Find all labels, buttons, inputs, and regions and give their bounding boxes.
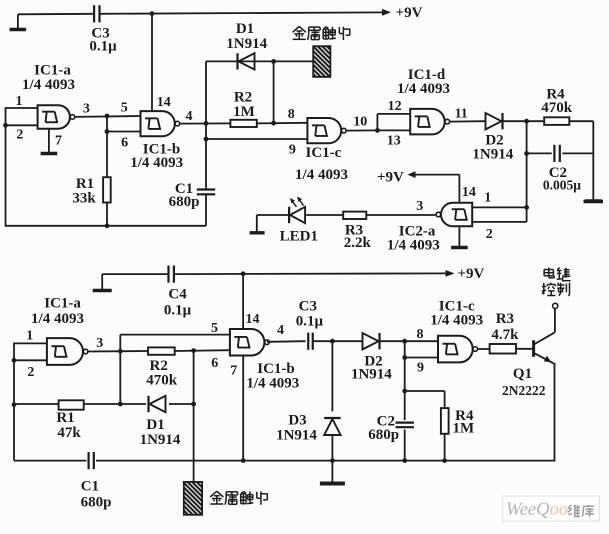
wire: vertical node down to C2 <box>404 341 406 420</box>
svg-text:1: 1 <box>26 328 33 343</box>
wire: pin4 to R2 <box>180 122 231 124</box>
svg-text:D1: D1 <box>146 417 164 433</box>
gate IC1-c (top) <box>307 118 346 143</box>
resistor R4 1M (bottom, vertical) <box>441 408 449 434</box>
wire pin 2 IC2-a <box>472 221 526 223</box>
svg-text:IC1-a: IC1-a <box>44 295 81 311</box>
gate IC1-b (bottom) <box>230 329 269 356</box>
wire drop to ground <box>256 215 258 232</box>
wire pin 12 <box>377 113 410 115</box>
wire: pin 9 of IC1-c <box>206 138 307 140</box>
wire: right vertical to ground <box>592 121 594 201</box>
wire pin 13 <box>377 129 410 131</box>
gate IC1-c (bottom) <box>438 336 478 363</box>
svg-text:1: 1 <box>484 190 491 205</box>
junction pin9 <box>402 355 407 360</box>
wire: emitter down to bottom rail <box>554 364 556 462</box>
svg-text:1M: 1M <box>452 421 474 437</box>
diode D2 1N914 (top) <box>486 113 503 129</box>
wire: output 10 <box>346 129 378 131</box>
ground below IC2-a <box>451 226 468 247</box>
svg-text:1N914: 1N914 <box>226 36 267 52</box>
junction C2 tap <box>524 151 529 156</box>
junction C2/bottom <box>402 458 407 463</box>
junction vertical/D1 wire <box>118 402 123 407</box>
junction pin2/feedback <box>3 123 8 128</box>
capacitor C4 0.1u <box>169 266 174 283</box>
svg-text:+9V: +9V <box>457 266 484 282</box>
wire: pin 5 bottom <box>120 334 230 336</box>
wire pin2 IC1-a <box>6 124 38 126</box>
metal contact pad (top) 金属触片 <box>313 46 330 77</box>
capacitor C2 0.005u (top) <box>554 145 559 162</box>
junction pin8/D1 drop <box>271 121 276 126</box>
ground (bottom rail left) <box>93 274 112 290</box>
svg-text:13: 13 <box>387 134 401 149</box>
junction pin6/metal-contact drop <box>191 348 196 353</box>
svg-text:8: 8 <box>288 107 295 122</box>
svg-text:7: 7 <box>55 134 62 149</box>
svg-text:1/4 4093: 1/4 4093 <box>295 167 348 183</box>
junction pin9 node <box>204 137 209 142</box>
resistor R2 470k (bottom) <box>148 347 175 354</box>
wire: to R1 bottom <box>14 403 59 405</box>
svg-text:C3: C3 <box>299 298 317 314</box>
svg-text:11: 11 <box>455 106 468 121</box>
junction D3 tap <box>330 339 335 344</box>
wire: pin 7 drop <box>242 356 244 461</box>
svg-text:8: 8 <box>417 327 424 342</box>
wire: pin14 drop IC1-b bottom <box>242 274 244 329</box>
junction: rail to IC1-b pin14 <box>150 11 155 16</box>
resistor R3 2.2k (top) <box>343 212 366 219</box>
wire: 12-13 tie vertical <box>376 114 378 130</box>
capacitor C3 0.1u (bottom) <box>308 333 313 350</box>
junction R1/bottom <box>105 223 110 228</box>
resistor R2 1M (top) <box>230 120 256 127</box>
svg-text:LED1: LED1 <box>280 229 318 245</box>
svg-text:1N914: 1N914 <box>140 432 181 448</box>
wire: R3 to Q1 base <box>516 348 533 350</box>
svg-text:1/4 4093: 1/4 4093 <box>130 155 183 171</box>
wire: output 11 to D2 <box>450 120 485 122</box>
wire: output4 to C3 bottom <box>267 340 306 343</box>
junction pin4 node <box>204 121 209 126</box>
+9V arrow (top rail) <box>382 9 391 16</box>
svg-text:1M: 1M <box>233 104 255 120</box>
svg-text:3: 3 <box>416 199 423 214</box>
resistor R1 47k (bottom) <box>59 400 84 409</box>
svg-text:3: 3 <box>83 101 90 116</box>
svg-text:1/4 4093: 1/4 4093 <box>246 376 299 392</box>
svg-text:14: 14 <box>246 312 260 327</box>
wire: R4 to right vertical <box>569 120 593 122</box>
label 电键 <box>544 268 571 281</box>
svg-text:3: 3 <box>96 336 103 351</box>
wire: R1 to D1 <box>84 403 146 405</box>
svg-text:IC1-c: IC1-c <box>305 145 341 161</box>
svg-text:1/4 4093: 1/4 4093 <box>22 77 75 93</box>
svg-text:2: 2 <box>16 127 23 142</box>
wire: output to R3 bottom <box>478 348 490 350</box>
svg-text:2: 2 <box>486 227 493 242</box>
capacitor C2 680p (bottom) <box>396 423 414 428</box>
svg-text:680p: 680p <box>81 494 112 510</box>
svg-text:9: 9 <box>417 360 424 375</box>
junction R4/bottom <box>442 458 447 463</box>
resistor R4 470k (top) <box>544 117 569 125</box>
wire: D1 to vertical <box>169 403 194 405</box>
svg-text:47k: 47k <box>57 425 81 441</box>
ground (top-left) <box>10 14 27 29</box>
junction pins 12/13 <box>375 128 380 133</box>
svg-text:4.7k: 4.7k <box>491 327 519 343</box>
wire: R3 to LED1 <box>306 214 343 216</box>
svg-text:WeeQoo: WeeQoo <box>506 500 568 520</box>
top +9V rail wire <box>18 13 94 16</box>
svg-text:4: 4 <box>277 323 284 338</box>
svg-text:Q1: Q1 <box>513 366 532 382</box>
wire: down to metal contact (crosses bottom wire) <box>193 351 195 482</box>
svg-text:10: 10 <box>353 115 367 130</box>
svg-text:680p: 680p <box>368 427 399 443</box>
wire: pin 14 drop <box>151 14 153 112</box>
LED1 arrows <box>290 197 304 208</box>
wire pin2 IC1-a bottom <box>14 359 47 361</box>
svg-text:C1: C1 <box>81 479 99 495</box>
svg-text:2N2222: 2N2222 <box>502 383 546 398</box>
junction D2/R4/C2 node <box>524 119 529 124</box>
junction D1/vertical <box>191 402 196 407</box>
gate IC1-a (bottom) <box>47 338 88 365</box>
junction pin8 node <box>402 339 407 344</box>
svg-text:7: 7 <box>230 364 237 379</box>
wire: pin 9 bottom <box>405 357 438 359</box>
wire: bottom return rail (left of C1) <box>14 460 87 462</box>
capacitor C1 680p (top) <box>197 190 215 195</box>
svg-text:+9V: +9V <box>377 169 404 185</box>
svg-text:R3: R3 <box>496 311 514 327</box>
transistor Q1 2N2222 <box>534 332 556 364</box>
svg-text:0.1μ: 0.1μ <box>164 302 192 318</box>
watermark WeeQoo维库 <box>503 496 600 521</box>
svg-text:6: 6 <box>121 135 128 150</box>
junction D3/bottom <box>330 458 335 463</box>
resistor R1 33k (top, vertical) <box>103 177 111 202</box>
junction pin6 <box>105 129 110 134</box>
svg-text:1N914: 1N914 <box>472 147 513 163</box>
+9V arrow (bottom rail) <box>446 270 455 277</box>
svg-text:14: 14 <box>462 185 476 200</box>
label 金属触片 (bottom) <box>210 491 268 505</box>
svg-text:1/4 4093: 1/4 4093 <box>430 313 483 329</box>
svg-text:9: 9 <box>289 142 296 157</box>
wire: down to R1 <box>106 116 108 177</box>
gate IC2-a (mirrored) <box>436 203 472 227</box>
diode D1 1N914 (top) <box>238 53 255 69</box>
wire: left feedback vertical <box>5 107 7 226</box>
svg-text:14: 14 <box>157 95 171 110</box>
wire: R2 to pin6 <box>175 349 230 352</box>
metal contact pad (bottom) 金属触片 <box>184 482 202 515</box>
svg-text:680p: 680p <box>169 194 200 210</box>
junction R4 tap <box>402 389 407 394</box>
wire: top-circuit bottom return <box>6 225 207 227</box>
wire: to R4 top <box>405 390 445 392</box>
wire: output3 to R2 bottom <box>88 350 148 353</box>
wire: R1 to bottom rail <box>106 203 108 226</box>
svg-text:R1: R1 <box>56 410 74 426</box>
label 控制 <box>542 283 570 296</box>
junction pin1/vertical <box>524 205 529 210</box>
wire: R4 to bottom <box>444 434 446 461</box>
gate IC1-d (top) <box>410 109 449 134</box>
junction rail/pin14 <box>241 271 246 276</box>
wire: LED1 left <box>257 214 290 216</box>
wire: left vertical bottom circuit <box>13 343 15 461</box>
wire pin6 stub <box>107 131 141 133</box>
junction on D1 wire <box>271 59 276 64</box>
svg-text:1/4 4093: 1/4 4093 <box>397 81 450 97</box>
wire pin1 IC1-a bottom <box>14 342 47 344</box>
svg-text:+9V: +9V <box>396 5 423 21</box>
junction pin7/bottom wire <box>241 458 246 463</box>
LED1 light emitting diode <box>289 207 305 223</box>
svg-text:5: 5 <box>211 321 218 336</box>
gate IC1-b (top) <box>141 111 180 136</box>
capacitor C1 680p (bottom) <box>89 452 94 469</box>
wire: R2 to pin 8 <box>257 122 308 125</box>
wire: to C2 <box>527 152 552 154</box>
svg-text:0.1μ: 0.1μ <box>89 39 117 55</box>
svg-text:6: 6 <box>211 356 218 371</box>
ground at IC1-a pin7 <box>41 129 58 154</box>
junction output3 node <box>118 349 123 354</box>
wire pin1 IC1-a <box>6 107 38 109</box>
wire: D2 to pin 8 bottom <box>380 340 438 342</box>
wire: vertical D1/C1 branch <box>205 61 207 189</box>
junction left/R1 <box>12 402 17 407</box>
wire: D2 to R4 <box>502 120 544 122</box>
svg-text:5: 5 <box>121 100 128 115</box>
op-amp/gate U: IC1-a (top) 1/4 4093 <box>38 105 75 129</box>
svg-text:2.2k: 2.2k <box>344 235 372 251</box>
wire: collector to key terminal <box>554 309 556 333</box>
wire: output 3 to pin 5 <box>75 115 141 118</box>
svg-text:D3: D3 <box>288 412 306 428</box>
wire pin 1 IC2-a <box>472 206 526 208</box>
svg-text:1N914: 1N914 <box>276 428 317 444</box>
svg-text:12: 12 <box>388 99 402 114</box>
terminal circle 电键控制 <box>553 303 558 308</box>
ground at LED1 <box>250 231 265 234</box>
label 金属触片 (top) <box>293 27 351 41</box>
diode D2 1N914 (bottom) <box>363 333 380 349</box>
wire: C3 to D2 bottom <box>313 340 362 342</box>
svg-text:4: 4 <box>186 109 193 124</box>
bottom +9V rail <box>102 273 168 275</box>
svg-text:C4: C4 <box>168 287 187 303</box>
svg-text:33k: 33k <box>72 191 96 207</box>
wire: output 3 to R3 <box>366 214 435 216</box>
wire: +9V to IC2-a pin14 <box>458 175 460 203</box>
svg-text:2: 2 <box>27 365 34 380</box>
resistor R3 4.7k (bottom) <box>490 344 516 354</box>
wire: bottom return rail <box>96 460 555 462</box>
wire: vertical pin5/down <box>119 335 121 404</box>
svg-text:470k: 470k <box>541 100 573 116</box>
svg-text:1/4 4093: 1/4 4093 <box>31 311 84 327</box>
diode D3 1N914 (vertical) <box>324 418 340 435</box>
ground (bottom centre) <box>320 461 345 484</box>
ground (top right) <box>585 200 602 202</box>
capacitor C3 (top) <box>94 5 99 22</box>
svg-text:1: 1 <box>16 94 23 109</box>
svg-text:1N914: 1N914 <box>351 367 392 383</box>
svg-text:D1: D1 <box>236 21 254 37</box>
wire: node vertical down to IC2-a pins <box>526 121 528 222</box>
wire: down to D3 <box>331 341 333 411</box>
diode D1 1N914 (bottom) <box>149 396 166 412</box>
junction pin2 <box>12 358 17 363</box>
svg-text:470k: 470k <box>146 372 178 388</box>
junction node at pins 5/6 <box>105 114 110 119</box>
wire: D3 to bottom rail <box>331 435 333 460</box>
wire: D1 branch horizontal <box>206 60 313 62</box>
svg-text:0.1μ: 0.1μ <box>296 313 324 329</box>
svg-text:1/4 4093: 1/4 4093 <box>387 237 440 253</box>
wire: D1 node down to pin8 <box>273 61 275 123</box>
svg-text:0.005μ: 0.005μ <box>543 178 581 193</box>
